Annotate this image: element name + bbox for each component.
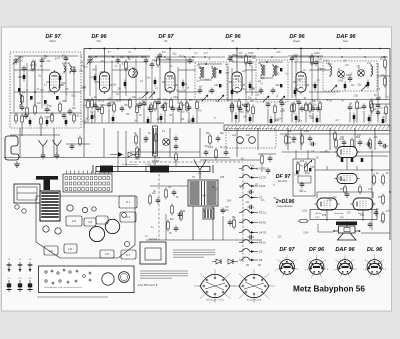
diode D3: [212, 259, 221, 264]
mid cluster e: [204, 148, 229, 160]
capacitor C21: [116, 59, 121, 61]
svg-text:R9: R9: [259, 258, 263, 262]
choke below Tr1: [203, 208, 214, 219]
svg-text:Tr: Tr: [379, 97, 381, 100]
switch link dash h: [130, 161, 243, 163]
wire u13: [309, 69, 330, 71]
coil L11: [371, 64, 373, 77]
resistor R50: [371, 104, 374, 111]
switch contact S1c: [239, 183, 266, 188]
svg-text:10n: 10n: [200, 99, 205, 102]
wire out c: [326, 210, 328, 221]
core adjust arrows: [142, 85, 367, 102]
svg-text:10n: 10n: [208, 91, 213, 94]
tube label DF 97 (top row 1): [45, 34, 61, 43]
wire u10: [178, 91, 200, 93]
socket diagram DAF 96: [333, 255, 357, 279]
capacitor Cp4: [107, 102, 112, 123]
svg-text:220: 220: [229, 60, 234, 63]
svg-text:1M5: 1M5: [339, 138, 344, 141]
wire rail y62: [90, 61, 322, 63]
svg-text:R70: R70: [300, 161, 305, 163]
wire mid6: [200, 159, 260, 161]
svg-text:Glimm: Glimm: [315, 213, 321, 215]
resistor Rp21: [291, 103, 294, 123]
wire drop 12: [329, 128, 331, 150]
capacitor C46: [376, 97, 381, 99]
wire u14: [309, 91, 335, 93]
layout box L12: [66, 216, 82, 226]
speaker LS: [333, 226, 360, 240]
wire drop 10: [287, 128, 289, 150]
svg-text:4n7: 4n7: [138, 97, 143, 100]
svg-text:L11: L11: [367, 62, 371, 65]
notes line C: [37, 296, 108, 298]
svg-text:25p: 25p: [273, 197, 278, 200]
tube V7 DL96: [315, 198, 340, 210]
resistor R24: [157, 58, 160, 65]
svg-text:100p: 100p: [208, 147, 214, 149]
junction o1: [371, 169, 373, 171]
svg-text:100p: 100p: [312, 84, 318, 87]
wire u11: [245, 69, 256, 71]
svg-text:DF 97: DF 97: [279, 247, 295, 253]
svg-text:4n7: 4n7: [202, 195, 207, 198]
resistor Rn1: [344, 187, 347, 192]
wire vpair b: [125, 131, 127, 166]
elco can 2: [105, 219, 119, 233]
svg-text:Fi 2: Fi 2: [126, 254, 131, 257]
svg-text:2M: 2M: [349, 102, 352, 105]
svg-text:U4 78: U4 78: [259, 231, 266, 235]
svg-text:50µ: 50µ: [242, 88, 247, 91]
wire drop 6: [169, 128, 171, 157]
resistor R34: [245, 56, 248, 63]
capacitor C9: [45, 108, 50, 110]
capacitor C39: [290, 57, 295, 59]
right col parts: [374, 194, 385, 224]
wire u15: [377, 75, 390, 77]
svg-text:2M: 2M: [206, 133, 209, 135]
svg-text:220: 220: [245, 201, 250, 204]
block capacitor Cb6: [235, 113, 238, 124]
resistor R48: [384, 60, 387, 67]
IF coil Fi1 b: [210, 66, 216, 94]
capacitor C37: [238, 107, 243, 109]
switch cap k3: [249, 235, 251, 240]
block capacitor Cd14: [46, 118, 49, 127]
capacitor Cp30: [376, 103, 381, 123]
switch contact S1f: [239, 220, 266, 225]
wire rail y57: [88, 56, 388, 58]
cluster right of can: [258, 154, 276, 175]
tube label DF 96 (top row 4): [225, 34, 241, 43]
svg-text:1M5: 1M5: [335, 91, 340, 94]
svg-text:4n7: 4n7: [157, 102, 162, 105]
svg-text:1M5: 1M5: [152, 153, 157, 156]
resistor R14: [91, 100, 94, 107]
wire u9: [178, 69, 196, 71]
coil L7: [20, 93, 22, 107]
svg-text:10n: 10n: [72, 107, 77, 110]
wire af3: [165, 214, 167, 240]
wire s1c: [34, 60, 36, 106]
capacitor C5: [64, 57, 69, 59]
layout right box 2: [121, 250, 136, 259]
wire drop 4: [103, 128, 105, 157]
transformer block (layout): [40, 191, 60, 221]
socket hole 4: [43, 226, 49, 232]
capacitor C31: [188, 59, 193, 61]
stage1 left chain: [20, 94, 43, 137]
svg-text:50µ: 50µ: [250, 164, 255, 167]
switch contact S1b: [239, 175, 266, 180]
block capacitor Cb3: [147, 117, 150, 124]
block capacitor Cb1: [91, 113, 94, 124]
wire af1: [150, 185, 188, 187]
svg-text:L1 Ferritantenne: L1 Ferritantenne: [122, 163, 139, 166]
trimmer C1: [13, 59, 18, 61]
block capacitor Cd7: [231, 88, 234, 97]
socket diagram DF 96: [305, 255, 329, 279]
layout box L15: [64, 244, 77, 253]
terminal strip: [224, 125, 390, 131]
mid rail upper: [84, 99, 390, 101]
svg-text:Tr: Tr: [80, 56, 82, 59]
contact disc 2: [249, 137, 256, 144]
svg-text:4n7: 4n7: [225, 72, 230, 75]
block capacitor Cd1: [23, 73, 26, 82]
block capacitor Cb12: [368, 115, 371, 124]
svg-text:220: 220: [277, 236, 282, 239]
svg-text:220: 220: [47, 60, 52, 63]
supply box: [140, 238, 166, 264]
capacitor C2: [22, 67, 27, 69]
chain x176: [174, 144, 179, 167]
AF transformer Tr1: [188, 180, 218, 206]
AF cluster right: [228, 218, 236, 230]
layout right box 4: [100, 250, 114, 258]
svg-text:10n: 10n: [242, 70, 247, 73]
junction s4: [236, 48, 238, 50]
svg-text:50µ: 50µ: [71, 95, 76, 98]
wire af4: [222, 216, 224, 240]
socket hole 5: [55, 228, 61, 234]
antenna V right: [194, 159, 206, 179]
mid cluster b: [209, 134, 221, 146]
wire out g: [295, 150, 297, 159]
socket hole 2: [82, 207, 87, 212]
svg-text:L12: L12: [72, 219, 77, 223]
diode D1: [338, 71, 344, 77]
Fi1 couplers: [198, 63, 222, 87]
stage1 coil labels: [62, 63, 71, 74]
svg-text:R5 0,1: R5 0,1: [259, 211, 267, 215]
layout box L14: [44, 246, 58, 255]
block capacitor Cd10: [314, 82, 317, 91]
svg-text:0,5M: 0,5M: [305, 173, 310, 175]
socket diagram DL 96: [363, 255, 387, 279]
IF can Fi1 dashed: [195, 62, 227, 101]
socket hole 1: [67, 205, 73, 211]
junction dots rails: [89, 48, 385, 58]
coil L10: [330, 64, 332, 77]
tuner box: [14, 184, 40, 203]
block capacitor Cb10: [316, 116, 319, 124]
svg-text:C31: C31: [275, 66, 280, 69]
wire s3a: [169, 49, 171, 71]
tube V2 pentode: [97, 70, 113, 94]
block capacitor Cb11: [353, 113, 356, 124]
front panel holes: [45, 269, 91, 284]
block capacitor Cd2: [59, 74, 62, 83]
svg-text:4n7: 4n7: [341, 77, 346, 80]
tube V6 DF97: [335, 174, 360, 184]
svg-text:R75: R75: [322, 215, 327, 217]
resistor R12: [26, 108, 29, 115]
resistor R60: [373, 176, 376, 183]
svg-text:25p: 25p: [357, 84, 362, 87]
block capacitor Cd8: [249, 82, 252, 91]
svg-text:C70: C70: [310, 167, 315, 169]
tube label DF 96 (top row 2): [91, 34, 107, 43]
wire out a: [315, 169, 390, 171]
capacitor C20: [144, 59, 149, 61]
switch contact S1j: [239, 257, 263, 262]
svg-text:0,5M: 0,5M: [356, 107, 361, 110]
dashed can mid: [226, 129, 276, 149]
antenna sym 1: [40, 142, 47, 154]
antenna sym 2: [54, 142, 61, 154]
capacitor Cp2: [93, 103, 98, 123]
resistor R49: [384, 78, 387, 85]
preamp box: [293, 159, 315, 196]
capacitor Cp24: [311, 106, 316, 123]
layout small circ b: [124, 241, 129, 246]
resistor Rn2: [359, 187, 362, 192]
resistor Rp27: [356, 100, 359, 123]
svg-text:10n: 10n: [215, 100, 220, 103]
capacitor C4: [40, 59, 45, 61]
svg-text:1M5: 1M5: [108, 98, 113, 101]
svg-text:2M: 2M: [118, 88, 121, 91]
svg-text:50µ: 50µ: [183, 83, 188, 86]
block capacitor Cd12: [367, 80, 370, 89]
tube V4 pentode: [229, 70, 245, 94]
svg-text:Gegentakt-End.: Gegentakt-End.: [277, 205, 293, 208]
svg-text:1M5: 1M5: [133, 75, 138, 78]
panel knob 1: [102, 273, 114, 285]
block capacitor Cb4: [160, 114, 163, 124]
svg-text:Metz Babyphon 56: Metz Babyphon 56: [293, 285, 365, 294]
tube label DF 97 (top row 3): [158, 34, 174, 43]
svg-text:2M: 2M: [225, 209, 228, 212]
svg-text:0,5M: 0,5M: [169, 77, 174, 80]
svg-text:100p: 100p: [99, 71, 105, 74]
svg-text:4n7: 4n7: [225, 64, 230, 67]
Fi2 couplers: [259, 61, 283, 87]
wire out e: [326, 166, 328, 170]
capacitor Cm3: [383, 144, 385, 149]
svg-text:Osz.: Osz.: [97, 40, 102, 43]
svg-text:1M: 1M: [182, 211, 185, 213]
capacitor C35: [248, 61, 253, 63]
svg-text:DF 97: DF 97: [276, 174, 292, 180]
oscillator coil L5: [129, 67, 138, 78]
junction s3: [169, 48, 171, 50]
svg-text:DL 96: DL 96: [367, 247, 383, 253]
resistor Rp1: [87, 99, 90, 123]
wire s1b: [19, 56, 21, 95]
svg-text:2M: 2M: [30, 64, 33, 67]
capacitor Cp22: [297, 100, 302, 123]
svg-text:4n7: 4n7: [199, 86, 204, 89]
label 2xDL96: [275, 199, 295, 208]
block capacitor Cb2: [112, 115, 115, 124]
wire out f: [356, 166, 358, 170]
svg-text:10n: 10n: [313, 104, 318, 107]
wire mid3: [280, 133, 390, 135]
svg-text:2×DL96: 2×DL96: [275, 199, 295, 205]
wire left low: [10, 134, 60, 136]
mid-left extra parts: [66, 136, 90, 151]
svg-text:Tr: Tr: [153, 90, 155, 93]
svg-text:L40 L41: L40 L41: [62, 63, 71, 65]
svg-text:40p: 40p: [120, 56, 125, 59]
capacitor C62: [368, 223, 373, 225]
svg-text:220: 220: [276, 51, 281, 54]
svg-text:100p: 100p: [18, 56, 24, 59]
preamp parts: [296, 162, 311, 194]
wire u12: [245, 91, 262, 93]
capacitor C43: [300, 107, 305, 109]
wire drop 14: [374, 128, 376, 150]
wire drop 13: [354, 128, 356, 150]
tube label DAF 96 (top row 6): [336, 34, 356, 43]
capacitor C19: [138, 103, 143, 105]
front panel outline: [39, 266, 135, 293]
potentiometer P1: [134, 146, 140, 160]
svg-text:220: 220: [310, 117, 315, 120]
svg-text:2M: 2M: [113, 84, 116, 87]
trim symbol bottom 2: [17, 278, 22, 292]
switch column link: [242, 165, 244, 262]
diode D2: [358, 70, 364, 76]
svg-text:Umschalt: Umschalt: [334, 212, 344, 215]
block capacitor Cd3: [94, 74, 97, 83]
capacitor C41: [314, 61, 319, 63]
svg-text:Tr: Tr: [26, 89, 28, 92]
svg-text:0,5M: 0,5M: [303, 231, 308, 234]
capacitor Cp8: [156, 100, 161, 123]
capacitor Ca: [41, 154, 46, 156]
wire u5: [288, 55, 323, 57]
svg-text:E.Nr. 56/54 Ausf. B: E.Nr. 56/54 Ausf. B: [138, 284, 158, 287]
resistor R3: [32, 62, 35, 69]
svg-text:U2 79: U2 79: [259, 176, 266, 180]
svg-text:Skala Abgleich Lage der Bedi: Skala Abgleich Lage der Bedienelemente: [44, 286, 83, 289]
capacitor Cp16: [244, 103, 249, 123]
right rail: [389, 49, 391, 241]
tube V1 pentode: [47, 70, 63, 94]
svg-text:6,3V: 6,3V: [315, 217, 320, 219]
wire out i: [318, 224, 333, 232]
contact disc 1: [237, 137, 244, 144]
svg-text:2M: 2M: [137, 106, 140, 109]
junction o2: [389, 191, 391, 193]
svg-text:220: 220: [142, 56, 147, 59]
svg-text:Tr: Tr: [188, 121, 190, 124]
wire out d: [362, 210, 364, 221]
svg-text:100p: 100p: [341, 179, 347, 182]
svg-text:Regel.: Regel.: [294, 40, 301, 43]
svg-text:Tr: Tr: [66, 93, 68, 96]
tube V6b DAF96 triode: [335, 147, 360, 158]
wire drop 9: [257, 128, 259, 150]
wire right v: [371, 150, 373, 230]
svg-text:1M: 1M: [37, 102, 40, 105]
capacitor Cp6: [142, 101, 147, 123]
svg-text:R62: R62: [356, 137, 361, 139]
wire mid bus: [4, 157, 230, 159]
capacitor C28: [177, 107, 182, 109]
svg-text:220: 220: [19, 60, 24, 63]
svg-text:NF-Vorst.: NF-Vorst.: [278, 180, 288, 183]
svg-text:Schaltstellung A: Schaltstellung A: [247, 299, 262, 302]
tube V3 pentode: [162, 70, 178, 94]
tube label DF 96 (top row 5): [289, 34, 305, 43]
svg-text:0,5M: 0,5M: [242, 104, 247, 107]
svg-text:100p: 100p: [157, 118, 163, 121]
svg-text:100p: 100p: [320, 68, 326, 71]
svg-text:DL96: DL96: [259, 184, 266, 188]
mid cluster c: [285, 134, 313, 146]
svg-text:100p: 100p: [166, 58, 172, 61]
svg-text:4n7: 4n7: [335, 119, 340, 122]
svg-text:0,5M: 0,5M: [62, 56, 67, 59]
svg-text:50µ: 50µ: [251, 88, 256, 91]
svg-text:10n: 10n: [261, 199, 266, 202]
IF coil Fi2 a: [259, 64, 265, 94]
wire af2: [146, 239, 262, 241]
svg-text:1M5: 1M5: [18, 76, 23, 79]
svg-text:100p: 100p: [134, 158, 140, 161]
svg-text:ZF.: ZF.: [231, 40, 235, 43]
wire s2a: [104, 49, 106, 71]
capacitor C23: [150, 63, 155, 65]
wire mid2: [130, 151, 200, 153]
svg-text:ZF.: ZF.: [164, 40, 168, 43]
AF cluster left: [149, 188, 183, 233]
block capacitor Cb7: [249, 115, 252, 124]
switch contact S1d: [239, 195, 263, 200]
svg-text:50µ: 50µ: [176, 90, 181, 93]
resistor Rp19: [274, 104, 277, 123]
layout right box 3: [120, 212, 136, 222]
svg-text:R8 1k: R8 1k: [259, 241, 266, 245]
component value labels upper band: [18, 51, 386, 111]
pot arrow mid: [304, 160, 312, 168]
svg-text:Misch.: Misch.: [50, 40, 57, 43]
svg-text:100p: 100p: [43, 103, 49, 106]
svg-text:25p: 25p: [354, 95, 359, 98]
svg-text:10n: 10n: [351, 84, 356, 87]
wire s2b: [84, 99, 130, 101]
stage1 black bits: [18, 88, 59, 104]
resistor Rp3: [101, 105, 104, 123]
scan text noise upper: [18, 51, 390, 124]
svg-text:50µ: 50µ: [172, 53, 177, 56]
